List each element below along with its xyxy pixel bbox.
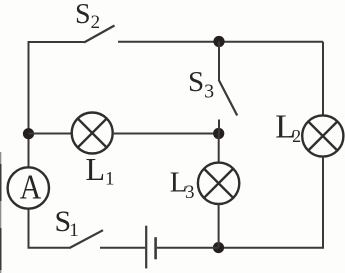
node junction top (213, 36, 224, 47)
wire S1 to battery (100, 247, 145, 249)
wire middle column to L3 (218, 134, 220, 164)
lamp L1 (72, 113, 113, 154)
wire middle row right (113, 133, 219, 135)
wire middle row left (29, 133, 73, 135)
wire left side middle (28, 134, 30, 168)
node junction left (23, 128, 34, 139)
node junction bottom (213, 242, 224, 253)
lamp L3 (198, 163, 239, 204)
svg-text:A: A (20, 168, 42, 207)
wire bottom-right segment (219, 247, 324, 249)
ammeter A1 (8, 167, 49, 208)
wire top-right segment (118, 41, 323, 43)
wire L3 to bottom node (218, 204, 220, 248)
wire bottom-left segment (29, 209, 71, 248)
wire top-left segment (29, 42, 85, 134)
wire right side bottom (322, 157, 324, 249)
wire battery to bottom node (157, 247, 219, 249)
wire right side top (322, 42, 324, 116)
node junction middle (213, 128, 224, 139)
battery B1 (146, 226, 155, 269)
switch S2 blade (84, 26, 115, 43)
switch S3 (219, 42, 237, 134)
lamp L2 (302, 115, 343, 156)
switch S1 blade (70, 230, 104, 248)
